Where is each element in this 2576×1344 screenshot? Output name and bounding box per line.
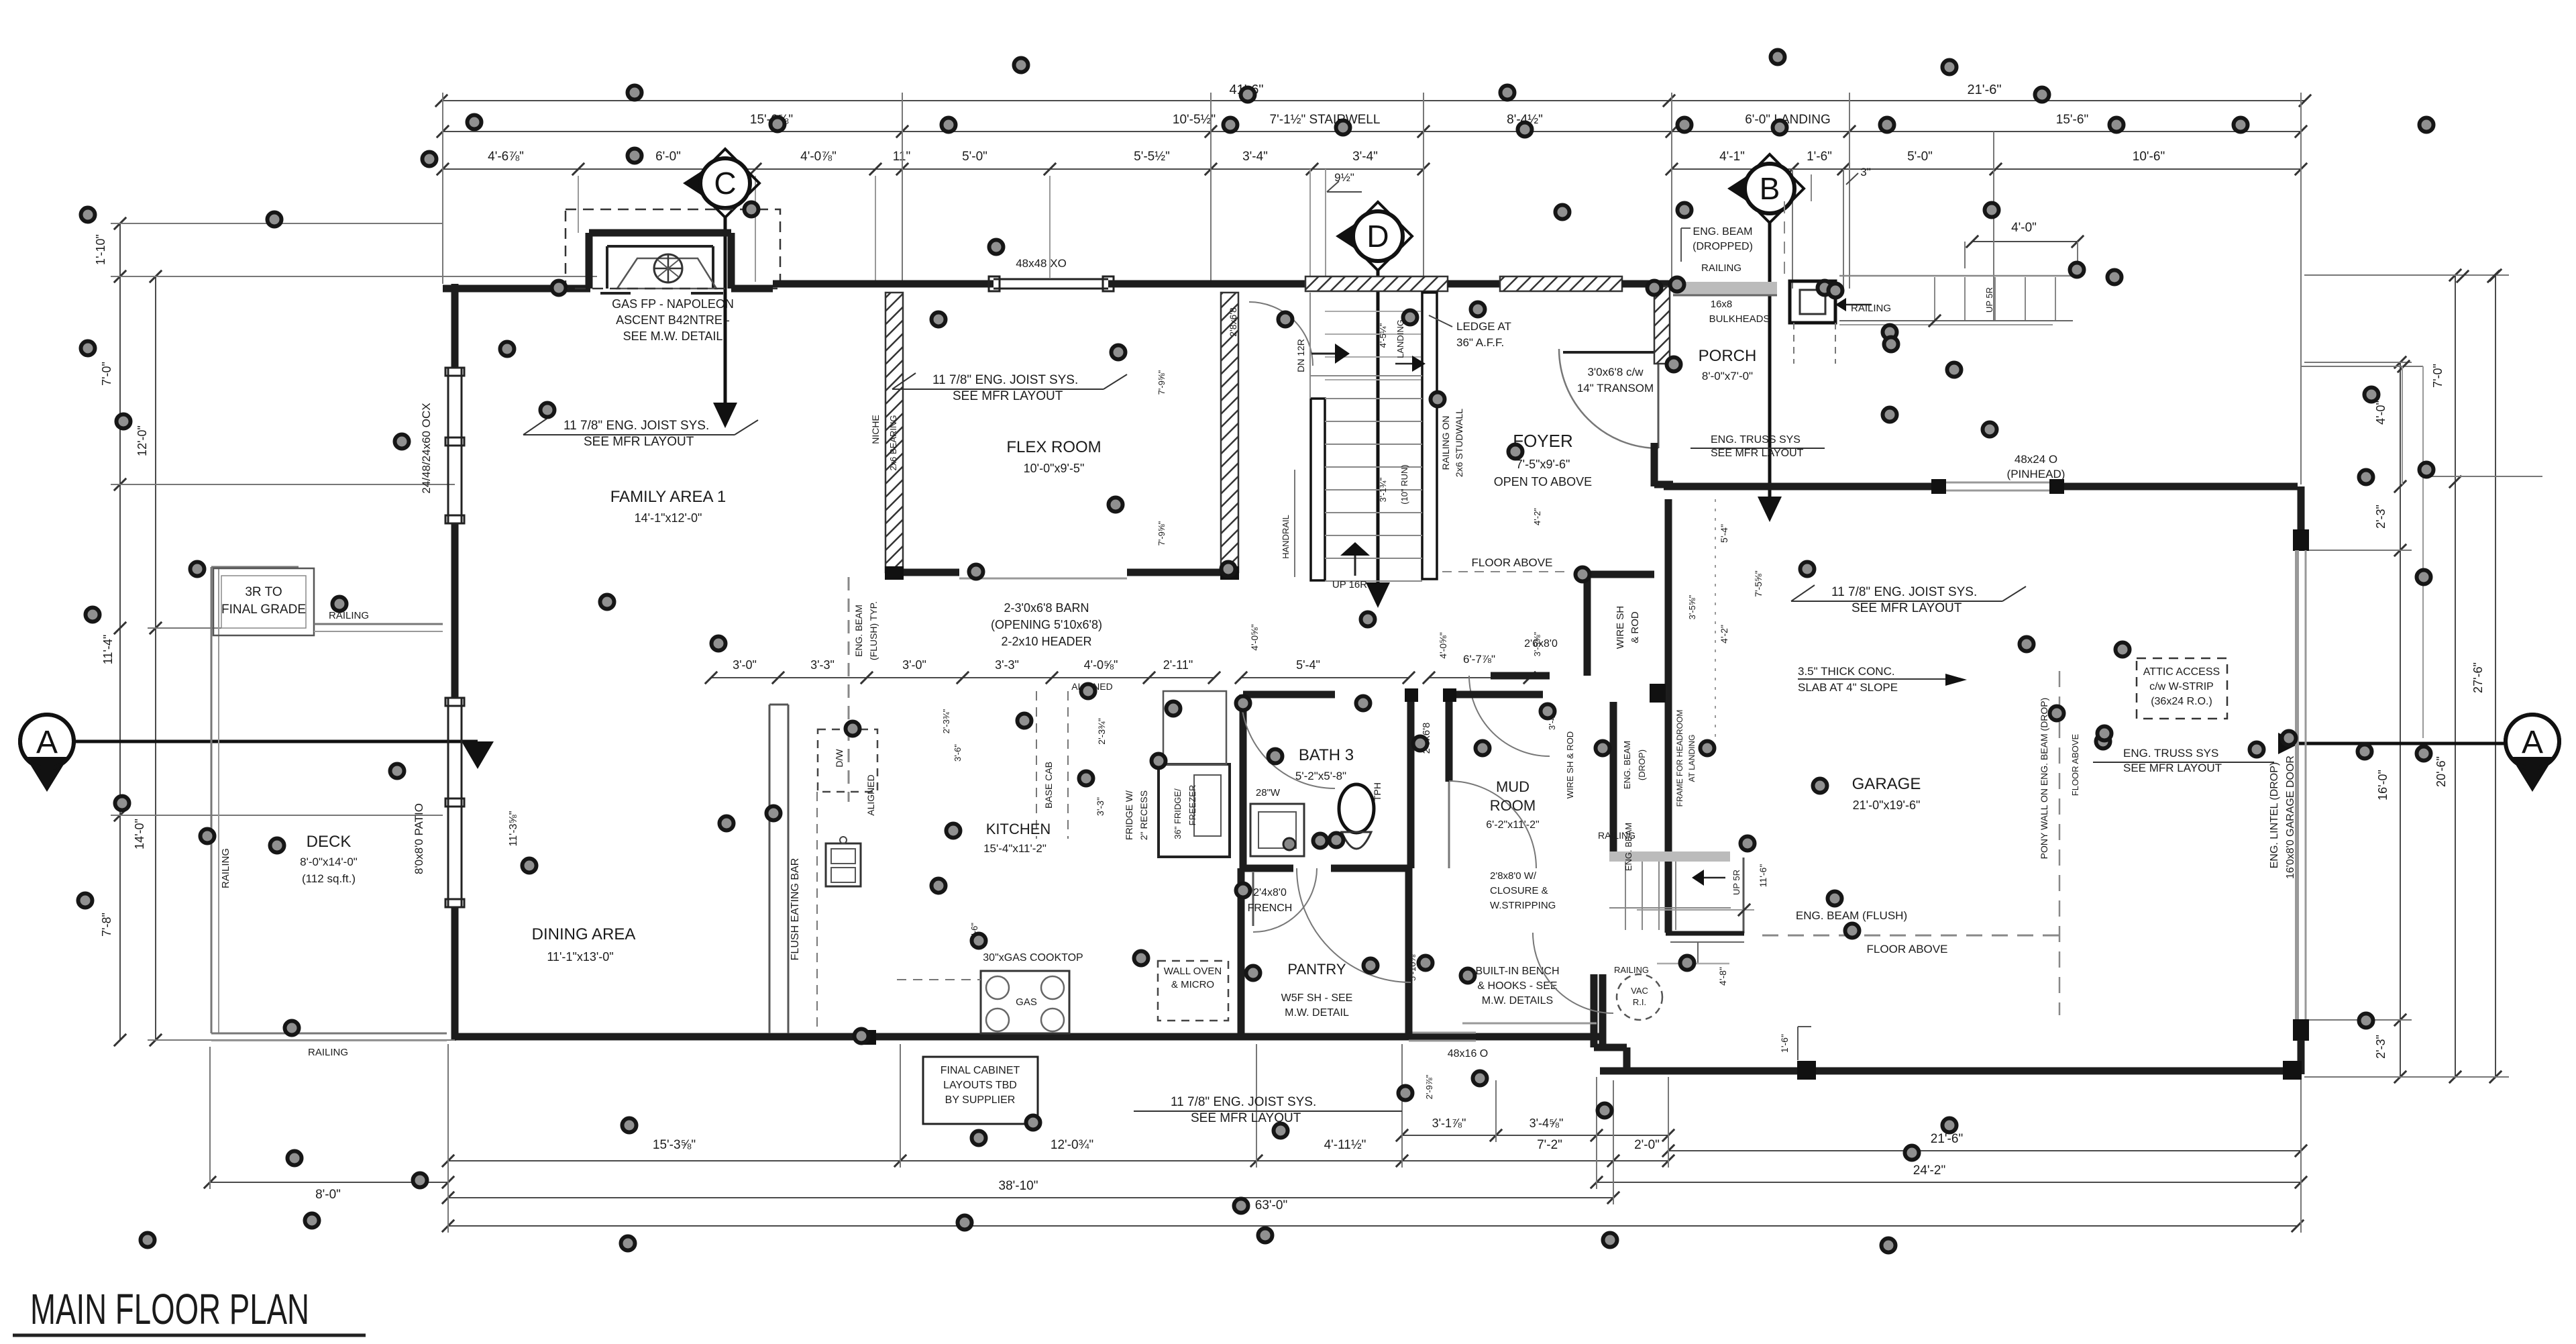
svg-text:6'-7⅞": 6'-7⅞"	[1463, 653, 1495, 666]
svg-text:4'-11½": 4'-11½"	[1324, 1138, 1366, 1152]
svg-text:28"W: 28"W	[1256, 787, 1281, 798]
svg-text:3'-1⅞": 3'-1⅞"	[1432, 1117, 1466, 1130]
svg-text:2'-9⅞": 2'-9⅞"	[1424, 1074, 1434, 1099]
svg-text:1'-6": 1'-6"	[1807, 150, 1832, 164]
svg-text:ENG. LINTEL (DROP): ENG. LINTEL (DROP)	[2269, 762, 2280, 869]
svg-text:8'0x8'0 PATIO: 8'0x8'0 PATIO	[413, 803, 425, 874]
svg-text:5'-0": 5'-0"	[962, 150, 987, 164]
svg-text:7'-5⅝": 7'-5⅝"	[1753, 570, 1764, 597]
svg-text:7'-9⅝": 7'-9⅝"	[1157, 521, 1167, 546]
svg-text:3'-3": 3'-3"	[810, 658, 835, 672]
svg-text:4'-0⅝": 4'-0⅝"	[1084, 658, 1118, 672]
svg-text:SLAB AT 4" SLOPE: SLAB AT 4" SLOPE	[1798, 681, 1898, 694]
svg-text:36" A.F.F.: 36" A.F.F.	[1456, 336, 1504, 349]
svg-text:8'-0": 8'-0"	[315, 1188, 341, 1202]
svg-text:ASCENT B42NTRE -: ASCENT B42NTRE -	[616, 313, 730, 327]
svg-text:3'-1¾": 3'-1¾"	[1378, 477, 1388, 502]
svg-text:PORCH: PORCH	[1699, 347, 1757, 365]
svg-text:5'-10⅞": 5'-10⅞"	[1407, 951, 1417, 981]
svg-text:27'-6": 27'-6"	[2471, 662, 2485, 693]
svg-text:BASE CAB: BASE CAB	[1043, 762, 1054, 809]
svg-text:5'-5½": 5'-5½"	[1134, 150, 1170, 164]
svg-text:SEE M.W. DETAIL: SEE M.W. DETAIL	[623, 329, 723, 343]
svg-text:WIRE SH: WIRE SH	[1615, 606, 1626, 649]
svg-text:38'-10": 38'-10"	[999, 1179, 1038, 1193]
svg-text:ENG. BEAM: ENG. BEAM	[1623, 823, 1633, 871]
svg-text:11 7/8" ENG. JOIST SYS.: 11 7/8" ENG. JOIST SYS.	[932, 373, 1078, 387]
svg-text:15'-4"x11'-2": 15'-4"x11'-2"	[983, 842, 1046, 855]
svg-text:2'4x8'0: 2'4x8'0	[1253, 887, 1287, 898]
svg-text:4'-1": 4'-1"	[1719, 150, 1745, 164]
svg-text:20'-6": 20'-6"	[2434, 756, 2448, 787]
svg-text:TPH: TPH	[1372, 782, 1383, 801]
svg-text:4'-2": 4'-2"	[1532, 508, 1542, 525]
svg-text:3R TO: 3R TO	[245, 585, 282, 599]
svg-text:BATH 3: BATH 3	[1299, 746, 1354, 764]
svg-text:48x48 XO: 48x48 XO	[1016, 257, 1067, 270]
svg-text:3'-6": 3'-6"	[953, 744, 963, 762]
svg-text:BY SUPPLIER: BY SUPPLIER	[945, 1094, 1016, 1106]
svg-text:16'-0": 16'-0"	[2376, 770, 2390, 800]
svg-text:2x6 BEARING: 2x6 BEARING	[888, 415, 898, 470]
svg-text:3'-3": 3'-3"	[995, 658, 1019, 672]
svg-text:2" RECESS: 2" RECESS	[1138, 790, 1149, 840]
svg-text:UP 5R: UP 5R	[1984, 287, 1994, 313]
svg-text:(112 sq.ft.): (112 sq.ft.)	[302, 872, 356, 885]
svg-text:12'-0¾": 12'-0¾"	[1051, 1138, 1093, 1152]
svg-text:10'-5½": 10'-5½"	[1173, 113, 1216, 127]
svg-text:2'-3¾": 2'-3¾"	[941, 709, 951, 733]
svg-text:4'-0⅝": 4'-0⅝"	[1249, 624, 1260, 651]
svg-text:SEE MFR LAYOUT: SEE MFR LAYOUT	[1851, 601, 1962, 615]
svg-text:30"xGAS COOKTOP: 30"xGAS COOKTOP	[983, 952, 1083, 964]
svg-text:10'-0"x9'-5": 10'-0"x9'-5"	[1024, 462, 1085, 475]
svg-text:2'-3": 2'-3"	[2374, 1035, 2387, 1059]
svg-text:(10" RUN): (10" RUN)	[1399, 464, 1409, 505]
svg-text:7'-0": 7'-0"	[2431, 364, 2445, 388]
svg-text:4'-6⅞": 4'-6⅞"	[488, 150, 524, 164]
svg-text:RAILING ON: RAILING ON	[1440, 416, 1451, 470]
svg-text:ENG. BEAM: ENG. BEAM	[1693, 226, 1753, 238]
svg-text:5'-4": 5'-4"	[1719, 524, 1729, 543]
svg-text:63'-0": 63'-0"	[1255, 1198, 1287, 1212]
svg-text:UP 16R: UP 16R	[1332, 579, 1367, 590]
svg-text:GAS: GAS	[1016, 996, 1037, 1008]
svg-text:48x16 O: 48x16 O	[1448, 1048, 1488, 1059]
svg-text:SEE MFR LAYOUT: SEE MFR LAYOUT	[1711, 448, 1804, 459]
svg-text:2-2x10 HEADER: 2-2x10 HEADER	[1001, 635, 1091, 648]
svg-text:VAC: VAC	[1631, 986, 1648, 996]
svg-text:14'-1"x12'-0": 14'-1"x12'-0"	[635, 511, 702, 525]
svg-text:16'0x8'0 GARAGE DOOR: 16'0x8'0 GARAGE DOOR	[2285, 756, 2296, 879]
svg-text:3'-4⅝": 3'-4⅝"	[1529, 1117, 1564, 1130]
svg-text:(FLUSH) TYP.: (FLUSH) TYP.	[868, 601, 879, 660]
svg-text:8'-0"x14'-0": 8'-0"x14'-0"	[300, 856, 358, 868]
svg-text:2'-3": 2'-3"	[2374, 505, 2387, 529]
svg-text:7'-1½" STAIRWELL: 7'-1½" STAIRWELL	[1270, 113, 1381, 127]
svg-text:8'-0"x7'-0": 8'-0"x7'-0"	[1702, 370, 1753, 382]
svg-text:ENG. BEAM (FLUSH): ENG. BEAM (FLUSH)	[1796, 909, 1907, 922]
svg-text:24/48/24x60 OCX: 24/48/24x60 OCX	[420, 403, 433, 493]
svg-text:(PINHEAD): (PINHEAD)	[2007, 468, 2065, 480]
svg-text:4'-0⅝": 4'-0⅝"	[1438, 632, 1448, 659]
svg-text:BULKHEADS: BULKHEADS	[1709, 313, 1770, 325]
svg-text:& ROD: & ROD	[1629, 611, 1641, 643]
svg-text:ENG. BEAM: ENG. BEAM	[853, 605, 864, 657]
svg-text:11'-3⅝": 11'-3⅝"	[508, 811, 519, 847]
svg-text:OPEN TO ABOVE: OPEN TO ABOVE	[1494, 475, 1592, 488]
svg-text:5'-2"x5'-8": 5'-2"x5'-8"	[1295, 770, 1346, 782]
svg-text:FLEX ROOM: FLEX ROOM	[1006, 438, 1101, 456]
svg-text:2'8x8'0 W/: 2'8x8'0 W/	[1490, 870, 1537, 882]
svg-text:2x6 STUDWALL: 2x6 STUDWALL	[1454, 409, 1464, 477]
svg-text:16x8: 16x8	[1711, 299, 1733, 310]
svg-text:M.W. DETAIL: M.W. DETAIL	[1285, 1007, 1349, 1019]
svg-text:PANTRY: PANTRY	[1287, 961, 1346, 978]
svg-text:MUD: MUD	[1496, 778, 1529, 795]
svg-text:2'-0": 2'-0"	[1634, 1138, 1660, 1152]
svg-text:FRAME FOR HEADROOM: FRAME FOR HEADROOM	[1675, 710, 1684, 807]
svg-text:GARAGE: GARAGE	[1852, 775, 1921, 793]
svg-text:3'-4": 3'-4"	[1352, 150, 1378, 164]
svg-text:A: A	[2522, 725, 2543, 760]
svg-text:SEE MFR LAYOUT: SEE MFR LAYOUT	[2123, 762, 2222, 774]
svg-text:(OPENING 5'10x6'8): (OPENING 5'10x6'8)	[991, 618, 1102, 631]
svg-text:11 7/8" ENG. JOIST SYS.: 11 7/8" ENG. JOIST SYS.	[1831, 585, 1977, 599]
svg-text:4'-2": 4'-2"	[1719, 625, 1729, 643]
svg-text:FINAL CABINET: FINAL CABINET	[941, 1065, 1020, 1076]
svg-text:4'-0⅞": 4'-0⅞"	[800, 150, 837, 164]
svg-text:(36x24 R.O.): (36x24 R.O.)	[2151, 696, 2212, 707]
svg-text:DN 12R: DN 12R	[1295, 339, 1306, 372]
svg-text:5'-0": 5'-0"	[1907, 150, 1933, 164]
svg-text:15'-3⅝": 15'-3⅝"	[653, 1138, 696, 1152]
svg-text:6'-0": 6'-0"	[655, 150, 681, 164]
svg-text:2-3'0x6'8 BARN: 2-3'0x6'8 BARN	[1004, 601, 1089, 615]
svg-text:FINAL GRADE: FINAL GRADE	[221, 603, 306, 617]
svg-text:3'-0": 3'-0"	[902, 658, 926, 672]
svg-text:NICHE: NICHE	[870, 415, 881, 444]
svg-text:FAMILY AREA 1: FAMILY AREA 1	[610, 488, 727, 506]
svg-text:WIRE SH & ROD: WIRE SH & ROD	[1565, 731, 1575, 798]
svg-text:5'-4": 5'-4"	[1296, 658, 1320, 672]
svg-text:WALL OVEN: WALL OVEN	[1164, 966, 1222, 977]
svg-text:B: B	[1760, 171, 1780, 206]
svg-text:FLOOR ABOVE: FLOOR ABOVE	[1867, 943, 1948, 955]
svg-text:SEE MFR LAYOUT: SEE MFR LAYOUT	[584, 435, 694, 449]
svg-text:RAILING: RAILING	[1701, 262, 1741, 274]
svg-text:14'-0": 14'-0"	[133, 819, 146, 849]
svg-text:7'-2": 7'-2"	[1537, 1138, 1562, 1152]
svg-text:7'-5"x9'-6": 7'-5"x9'-6"	[1516, 458, 1570, 471]
svg-text:7'-0": 7'-0"	[100, 362, 113, 386]
svg-text:FREEZER: FREEZER	[1187, 785, 1197, 826]
svg-text:W5F SH - SEE: W5F SH - SEE	[1281, 992, 1353, 1004]
svg-text:12'-0": 12'-0"	[136, 425, 149, 456]
svg-text:2'-3¾": 2'-3¾"	[1096, 718, 1107, 745]
svg-text:HANDRAIL: HANDRAIL	[1281, 515, 1291, 559]
svg-text:3'-3": 3'-3"	[1095, 797, 1106, 816]
svg-text:RAILING: RAILING	[329, 610, 369, 621]
svg-text:48x24 O: 48x24 O	[2015, 453, 2057, 466]
svg-text:3'-5⅝": 3'-5⅝"	[1532, 631, 1542, 656]
svg-text:FLOOR ABOVE: FLOOR ABOVE	[2070, 733, 2080, 796]
svg-text:KITCHEN: KITCHEN	[986, 821, 1051, 837]
svg-text:& MICRO: & MICRO	[1171, 979, 1214, 990]
svg-text:DINING AREA: DINING AREA	[532, 925, 636, 943]
svg-text:D/W: D/W	[834, 749, 845, 768]
svg-text:11 7/8" ENG. JOIST SYS.: 11 7/8" ENG. JOIST SYS.	[1171, 1095, 1316, 1109]
svg-text:4'-0": 4'-0"	[2374, 401, 2387, 425]
svg-text:4'-5¼": 4'-5¼"	[1378, 323, 1388, 348]
svg-text:3'-5⅝": 3'-5⅝"	[1687, 595, 1697, 619]
svg-text:M.W. DETAILS: M.W. DETAILS	[1482, 995, 1553, 1006]
svg-text:4'-8": 4'-8"	[1717, 967, 1728, 986]
svg-text:36" FRIDGE/: 36" FRIDGE/	[1173, 788, 1183, 839]
svg-text:3'0x6'8 c/w: 3'0x6'8 c/w	[1587, 366, 1644, 378]
svg-text:MAIN FLOOR PLAN: MAIN FLOOR PLAN	[30, 1285, 309, 1333]
svg-text:21'-0"x19'-6": 21'-0"x19'-6"	[1853, 798, 1921, 812]
svg-text:24'-2": 24'-2"	[1913, 1164, 1945, 1178]
svg-text:3": 3"	[1860, 166, 1871, 178]
svg-text:RAILING: RAILING	[1614, 965, 1649, 975]
svg-text:21'-6": 21'-6"	[1968, 83, 2002, 97]
svg-text:A: A	[36, 725, 58, 760]
svg-text:ROOM: ROOM	[1490, 797, 1536, 814]
svg-text:3'-4": 3'-4"	[1242, 150, 1268, 164]
svg-text:11'-6": 11'-6"	[1758, 864, 1768, 888]
svg-text:DECK: DECK	[307, 833, 352, 851]
svg-text:3.5" THICK CONC.: 3.5" THICK CONC.	[1798, 665, 1895, 678]
svg-text:(DROPPED): (DROPPED)	[1693, 241, 1753, 252]
svg-text:15'-6": 15'-6"	[2056, 113, 2088, 127]
svg-text:R.I.: R.I.	[1633, 997, 1646, 1007]
svg-text:& HOOKS - SEE: & HOOKS - SEE	[1477, 980, 1557, 992]
svg-text:FLOOR ABOVE: FLOOR ABOVE	[1472, 556, 1553, 569]
svg-text:ENG. BEAM: ENG. BEAM	[1622, 741, 1632, 789]
svg-text:2'8x6'8: 2'8x6'8	[1228, 307, 1238, 337]
svg-text:7'-8": 7'-8"	[100, 913, 113, 937]
svg-text:ENG. TRUSS SYS: ENG. TRUSS SYS	[2123, 747, 2218, 760]
svg-text:D: D	[1366, 219, 1389, 254]
svg-text:1'-10": 1'-10"	[94, 234, 107, 265]
svg-text:10'-6": 10'-6"	[2133, 150, 2165, 164]
svg-text:7'-9⅝": 7'-9⅝"	[1157, 370, 1167, 395]
svg-text:ENG. TRUSS SYS: ENG. TRUSS SYS	[1711, 434, 1801, 446]
svg-text:LAYOUTS TBD: LAYOUTS TBD	[943, 1080, 1017, 1091]
svg-text:11'-1"x13'-0": 11'-1"x13'-0"	[547, 950, 613, 964]
svg-text:LEDGE AT: LEDGE AT	[1456, 320, 1511, 333]
svg-text:SEE MFR LAYOUT: SEE MFR LAYOUT	[953, 389, 1063, 403]
svg-text:AT LANDING: AT LANDING	[1687, 735, 1697, 782]
svg-text:C: C	[714, 166, 736, 201]
svg-text:FLUSH EATING BAR: FLUSH EATING BAR	[790, 858, 801, 961]
svg-text:21'-6": 21'-6"	[1931, 1132, 1963, 1146]
svg-text:FRIDGE W/: FRIDGE W/	[1124, 790, 1134, 840]
svg-text:1'-6": 1'-6"	[1779, 1034, 1790, 1053]
svg-text:GAS FP - NAPOLEON: GAS FP - NAPOLEON	[612, 297, 734, 311]
svg-text:14" TRANSOM: 14" TRANSOM	[1577, 382, 1654, 395]
svg-text:ALIGNED: ALIGNED	[865, 774, 876, 815]
svg-text:11 7/8" ENG. JOIST SYS.: 11 7/8" ENG. JOIST SYS.	[563, 419, 709, 433]
svg-text:BUILT-IN BENCH: BUILT-IN BENCH	[1475, 966, 1559, 977]
svg-text:2'-11": 2'-11"	[1163, 658, 1193, 672]
svg-text:4'-0": 4'-0"	[2011, 221, 2037, 235]
svg-text:RAILING: RAILING	[220, 848, 231, 888]
svg-text:UP 5R: UP 5R	[1731, 870, 1741, 895]
svg-text:(DROP): (DROP)	[1637, 749, 1647, 780]
svg-text:W.STRIPPING: W.STRIPPING	[1490, 900, 1556, 911]
svg-text:FRENCH: FRENCH	[1248, 902, 1293, 914]
svg-text:6'-2"x11'-2": 6'-2"x11'-2"	[1486, 819, 1539, 831]
svg-text:3'-0": 3'-0"	[733, 658, 757, 672]
svg-text:c/w W-STRIP: c/w W-STRIP	[2149, 681, 2214, 692]
svg-text:LANDING: LANDING	[1395, 319, 1405, 358]
svg-text:11'-4": 11'-4"	[101, 635, 115, 665]
svg-text:ATTIC ACCESS: ATTIC ACCESS	[2143, 666, 2220, 678]
svg-text:CLOSURE &: CLOSURE &	[1490, 885, 1548, 896]
svg-text:RAILING: RAILING	[308, 1047, 348, 1058]
svg-text:PONY WALL ON ENG. BEAM (DROP): PONY WALL ON ENG. BEAM (DROP)	[2039, 698, 2049, 860]
